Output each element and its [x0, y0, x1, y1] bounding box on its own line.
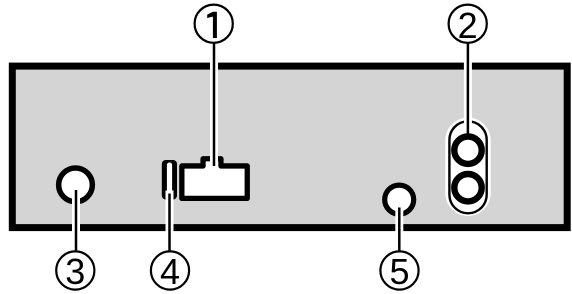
RCA pill outline [449, 121, 486, 213]
svg-text:5: 5 [389, 251, 409, 292]
leader line 1 core [213, 42, 216, 166]
leader line 3 core [75, 190, 78, 252]
leader line 5 core [398, 208, 401, 253]
leader line 1 casing [210, 42, 218, 166]
svg-text:3: 3 [65, 251, 85, 292]
digit 1 [207, 12, 217, 38]
leader line 5 casing [395, 204, 403, 252]
callout circle 4 [151, 251, 189, 289]
svg-text:2: 2 [458, 5, 478, 46]
callout circle 5 [380, 251, 418, 289]
leader line 2 casing [464, 42, 472, 136]
leader line 3 casing [72, 188, 80, 252]
RCA pill casing (item 2 connector outline halo) [445, 118, 490, 216]
antenna jack (item 3 connector) [59, 168, 93, 202]
RCA jack bottom [454, 174, 481, 201]
slot highlight in item 4 [167, 165, 172, 192]
small round jack (item 5 connector) [385, 185, 414, 214]
callout circle 2 [449, 5, 487, 43]
main wiring connector (item 1) [182, 159, 247, 199]
leader line 2 core [467, 42, 470, 135]
svg-text:4: 4 [160, 251, 180, 292]
narrow slot connector (item 4) [162, 160, 177, 200]
callout circle 3 [56, 251, 94, 289]
RCA jack top [454, 137, 481, 164]
rear panel body [12, 66, 567, 228]
leader line 4 core [168, 194, 171, 253]
leader line 4 casing [166, 191, 174, 253]
callout circle 1 [195, 5, 233, 43]
